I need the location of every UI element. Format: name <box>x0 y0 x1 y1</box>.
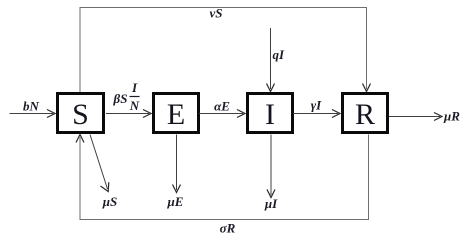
svg-text:I: I <box>131 80 138 95</box>
wire muI <box>267 135 275 198</box>
box R <box>343 94 388 133</box>
svg-text:σR: σR <box>220 221 236 236</box>
svg-text:μE: μE <box>167 194 184 209</box>
wire I to R <box>293 110 340 118</box>
wire S to E <box>106 110 151 118</box>
box S <box>58 94 104 133</box>
label betaS I/N <box>113 80 140 113</box>
wire R output muR <box>389 113 442 121</box>
wire sigmaR loop R to S <box>76 135 369 220</box>
svg-text:γI: γI <box>311 98 322 113</box>
svg-text:μR: μR <box>443 109 460 124</box>
svg-text:E: E <box>167 98 185 131</box>
svg-text:I: I <box>265 98 275 131</box>
wire qI input <box>267 28 275 92</box>
wire vS loop S to R <box>80 8 371 93</box>
svg-text:bN: bN <box>23 99 40 114</box>
wire muS diagonal <box>90 135 109 192</box>
svg-text:S: S <box>72 98 89 131</box>
wire E to I <box>199 110 245 118</box>
svg-text:qI: qI <box>273 47 286 62</box>
svg-text:βS: βS <box>113 91 128 106</box>
svg-text:N: N <box>129 98 140 113</box>
svg-text:μI: μI <box>264 196 278 211</box>
svg-text:αE: αE <box>214 99 230 114</box>
wire bN input <box>10 110 56 118</box>
wire muE <box>173 135 181 193</box>
svg-text:R: R <box>355 98 375 131</box>
box E <box>154 94 199 133</box>
svg-text:vS: vS <box>210 6 223 21</box>
svg-text:μS: μS <box>102 194 117 209</box>
box I <box>248 94 293 133</box>
